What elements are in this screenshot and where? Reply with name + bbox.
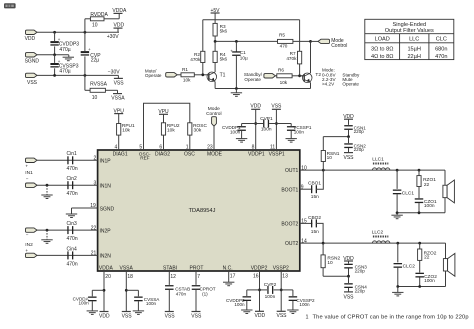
ground (filter ch1) [396,213,398,215]
wire IN1N [37,184,98,186]
svg-text:100n: 100n [299,302,310,307]
svg-text:OUT2: OUT2 [285,241,299,247]
wire SGND [37,54,69,56]
svg-text:Control: Control [206,111,221,117]
svg-text:470n: 470n [435,54,447,60]
resistor RPU1 10k [118,114,120,124]
svg-text:+: + [230,49,233,54]
svg-text:VDD: VDD [250,104,261,110]
svg-text:CLC2: CLC2 [403,264,416,270]
connector IN2 minus [26,228,38,232]
svg-text:10k: 10k [167,128,175,134]
svg-text:6: 6 [159,145,162,151]
connector VSS [26,73,38,77]
capacitor Cin1 470n [67,156,68,164]
svg-text:IN2N: IN2N [100,254,112,260]
svg-text:VDD: VDD [114,23,125,29]
svg-text:REF: REF [140,156,150,161]
connector SGND [26,53,38,57]
junction snubber1 [347,135,350,138]
capacitor CZO1 100n [418,187,420,199]
svg-text:IN1N: IN1N [100,183,112,189]
resistor R4 5k6 [214,41,216,51]
svg-text:100n: 100n [78,300,89,305]
svg-text:BOOT1: BOOT1 [281,187,298,193]
svg-text:VSS: VSS [27,80,38,86]
svg-text:VSSP2: VSSP2 [273,265,289,271]
resistor R3 5k6 [214,20,216,24]
loudspeaker ch1 [444,170,446,185]
svg-text:470n: 470n [67,166,78,172]
svg-text:LLC1: LLC1 [372,157,384,163]
svg-text:Output Filter Values: Output Filter Values [385,28,434,34]
supply VSS (pin12) [165,311,174,313]
svg-text:12: 12 [170,274,176,280]
svg-text:OSC: OSC [184,152,195,158]
capacitor Cin3 470n [67,226,68,234]
svg-text:+: + [25,248,28,253]
svg-text:17: 17 [230,273,236,279]
svg-text:STABI: STABI [163,265,177,271]
svg-text:SGND: SGND [25,59,40,65]
capacitor CPROT (1) [195,271,197,285]
wire OSC-REF loop [144,103,190,150]
svg-text:TDA8954J: TDA8954J [189,208,216,214]
resistor R6 10k [275,75,276,77]
svg-text:CBO1: CBO1 [308,180,321,186]
svg-text:100n: 100n [424,203,435,209]
wire to T2 collector [310,41,312,73]
ground (CVSSP2) [287,309,298,311]
wire VDDP2 pin16 [259,271,261,311]
capacitor CVSSA 100n [126,289,138,291]
svg-text:VSS: VSS [276,313,287,319]
svg-text:VSS: VSS [343,295,354,301]
ground (CVDDP2) [241,309,252,311]
svg-text:220p: 220p [354,129,365,134]
svg-text:11: 11 [270,145,275,151]
svg-text:IN2P: IN2P [100,228,112,234]
wire VSSP2 pin13 [280,271,282,311]
wire mode gnd rail [215,88,310,90]
svg-text:Operate: Operate [244,77,261,82]
svg-text:100n: 100n [261,127,272,133]
svg-text:VDD: VDD [99,314,110,320]
svg-text:VSS: VSS [343,155,354,161]
svg-text:10: 10 [92,23,98,29]
supply VDD (+30V) [117,28,119,32]
svg-text:LLC: LLC [409,37,419,43]
resistor R2 470k [202,20,204,52]
connector IN2 plus [26,253,38,257]
svg-text:18: 18 [127,274,133,280]
svg-text:IN1P: IN1P [100,159,112,165]
capacitor CSTAB 470n [168,271,170,285]
svg-text:470: 470 [280,44,288,49]
wire VSSA pin18 [125,271,127,312]
ground (CVSSA) [133,310,144,312]
supply VSS (snubber1) [344,152,353,154]
svg-text:OUT1: OUT1 [285,168,299,174]
svg-text:5k6: 5k6 [220,28,228,33]
svg-text:Cin3: Cin3 [67,221,78,227]
capacitor CZO2 100n [419,260,421,272]
supply VSS (snubber2) [344,291,353,293]
svg-text:8: 8 [252,145,255,151]
svg-text:100n: 100n [146,301,157,306]
junction [53,31,56,34]
capacitor CSN4 220p [348,276,350,283]
svg-text:−: − [26,233,29,238]
svg-text:10: 10 [327,260,333,266]
junction [53,74,56,77]
svg-text:470k: 470k [286,56,297,61]
svg-text:BOOT2: BOOT2 [281,221,298,227]
svg-text:3Ω to 8Ω: 3Ω to 8Ω [371,46,393,52]
svg-text:VSSA: VSSA [120,265,134,271]
svg-text:RVDDA: RVDDA [90,12,108,18]
capacitor CVP2 100n [260,289,268,291]
svg-text:CLC1: CLC1 [402,190,415,196]
svg-text:LOAD: LOAD [375,37,390,43]
ground (mode circuit) [235,89,237,93]
capacitor CVSSP2 100n [281,289,293,291]
svg-text:R1: R1 [182,67,188,72]
svg-text:7: 7 [197,274,200,280]
svg-text:VSS: VSS [165,314,176,320]
ground (SGND pin19) [71,208,73,214]
svg-text:13: 13 [282,273,288,279]
wire +5V rail [203,19,300,21]
wire OUT1 [300,169,445,171]
capacitor CSN2 220p [348,137,350,144]
svg-text:Operate: Operate [342,82,359,87]
supply VSS (pin13) [277,310,286,312]
resistor RVSSA 10 [84,75,86,90]
svg-text:100n: 100n [234,302,245,307]
svg-text:680n: 680n [435,46,447,52]
capacitor CVSSP3 470u [54,55,56,63]
wire IN2N [37,254,98,256]
resistor RZO2 22 [419,243,421,249]
svg-text:VSS: VSS [191,314,202,320]
svg-text:10k: 10k [280,80,288,85]
svg-text:30k: 30k [194,128,202,134]
capacitor CLC1 [396,170,398,189]
svg-text:470µ: 470µ [59,69,70,75]
capacitor VCSSP1 100n [276,123,291,125]
svg-text:+: + [25,164,28,169]
svg-text:DIAG1: DIAG1 [113,152,128,158]
supply VSS (pin18) [122,311,131,313]
ground (IN2, optional) [46,230,48,239]
svg-text:Cin1: Cin1 [67,151,78,157]
svg-text:IN1: IN1 [25,170,33,176]
resistor RPU2 10k [163,114,165,123]
resistor R5 470 [278,39,293,43]
capacitor CVDDP1 100n [242,123,256,125]
wire OUT2 [300,242,446,244]
svg-text:100n: 100n [424,278,435,284]
table Single-Ended Output Filter Values [365,19,454,59]
capacitor CBO1 15n [300,188,313,190]
op-amp U1 TDA8954J [98,150,300,271]
supply VSS (-30V) [117,75,119,78]
svg-text:(1): (1) [202,291,208,296]
svg-text:VSSA: VSSA [111,96,125,102]
svg-text:470n: 470n [67,236,78,242]
loudspeaker ch2 [445,243,447,259]
transistor T2 [302,73,312,83]
svg-text:T2: T2 [315,72,321,78]
wire VDDP1 [255,109,257,150]
supply VDDA [118,13,120,18]
capacitor Cin4 470n [67,251,68,259]
supply VDD (pin20) [100,311,109,313]
svg-text:−: − [26,177,29,182]
capacitor C1 10u [235,41,237,51]
svg-text:VDDP2: VDDP2 [251,265,268,271]
ground (N.C. pin17) [228,271,230,282]
ground (filter ch2) [397,287,399,293]
svg-text:220p: 220p [355,288,366,293]
svg-text:VSSP1: VSSP1 [269,152,285,158]
svg-text:23: 23 [207,145,213,151]
capacitor CVP1 100n [256,123,263,125]
svg-text:LLC2: LLC2 [372,230,384,236]
node mode-control [309,40,312,43]
svg-text:10: 10 [92,95,98,101]
svg-text:10k: 10k [122,128,130,134]
svg-text:20: 20 [105,274,111,280]
resistor RSN2 10 [322,243,324,255]
svg-text:470n: 470n [67,261,78,267]
supply VSSA [117,90,119,93]
svg-text:R6: R6 [278,68,284,73]
svg-text:VDD: VDD [25,36,36,42]
svg-text:100n: 100n [230,130,241,135]
svg-text:4Ω to 8Ω: 4Ω to 8Ω [371,54,393,60]
badge (corner logo) [4,3,16,8]
svg-text:4: 4 [115,145,118,151]
svg-text:15n: 15n [311,229,319,235]
wire VSS rail [37,74,118,76]
svg-text:MODE: MODE [207,152,223,158]
svg-text:N.C.: N.C. [223,265,233,271]
capacitor CVDDA 100n [92,289,104,291]
svg-text:RVSSA: RVSSA [90,81,108,87]
svg-text:+30V: +30V [107,34,119,40]
svg-text:1: 1 [186,145,189,151]
wire VDD rail [37,31,119,33]
svg-text:+: + [88,47,91,52]
svg-text:15µH: 15µH [407,46,421,52]
connector Mode Control [318,39,330,43]
capacitor CVP 22u [84,32,86,51]
svg-text:22: 22 [424,255,430,261]
svg-text:470µ: 470µ [59,47,70,53]
svg-text:Cin4: Cin4 [67,246,78,252]
svg-text:VDDP1: VDDP1 [248,152,265,158]
ground (CVDDA) [87,310,98,312]
svg-text:Cin2: Cin2 [67,176,78,182]
resistor RZO1 22 [418,170,420,176]
svg-text:CVP2: CVP2 [264,282,277,288]
connector IN1 plus [26,158,38,162]
svg-text:VSS: VSS [122,314,133,320]
svg-text:−30V: −30V [108,70,120,76]
svg-text:5: 5 [139,145,142,151]
svg-text:CVP1: CVP1 [260,116,273,122]
capacitor CSN1 220p [348,119,350,125]
wire gnd rail ch2 [398,286,446,288]
wire VDDA pin20 [103,271,105,312]
svg-text:100n: 100n [294,130,305,135]
svg-text:1: 1 [306,314,309,320]
ground (IN1, optional) [46,185,48,194]
svg-text:22: 22 [424,182,430,188]
capacitor Cin2 470n [67,181,68,189]
svg-text:10: 10 [327,155,333,161]
svg-text:CBO2: CBO2 [308,215,321,221]
svg-text:PROT: PROT [190,265,204,271]
svg-text:470k: 470k [190,57,201,62]
resistor RVDDA 10 [84,19,86,33]
wire VSSP1 [275,109,277,150]
svg-text:22µH: 22µH [407,54,421,60]
wire IN1P [37,159,98,161]
svg-text:VSS: VSS [114,81,125,87]
svg-text:VSS: VSS [271,104,282,110]
svg-text:The value of CPROT can be in t: The value of CPROT can be in the range f… [313,314,469,320]
wire gnd rail ch1 [397,212,445,214]
junction snubber2 [347,275,350,278]
connector IN1 minus [26,183,38,187]
svg-text:Operate: Operate [145,73,162,78]
svg-text:R5: R5 [279,32,285,37]
svg-text:VDD: VDD [255,313,266,319]
svg-text:16: 16 [253,273,259,279]
svg-text:CLC: CLC [436,37,447,43]
svg-text:470n: 470n [176,291,187,296]
svg-text:22µ: 22µ [91,57,100,63]
wire node A [215,40,277,42]
svg-text:10k: 10k [183,77,191,82]
supply VDD (pin16) [255,310,264,312]
svg-text:220p: 220p [354,147,365,152]
svg-text:10µ: 10µ [240,55,248,60]
svg-text:220p: 220p [355,269,366,274]
capacitor CSN3 220p [348,261,350,264]
resistor RSN1 10 [322,162,324,171]
resistor R7 470k [299,20,301,52]
svg-text:T1: T1 [220,72,226,78]
svg-text:˃4.2V: ˃4.2V [322,82,335,87]
svg-text:DIAG2: DIAG2 [155,152,170,158]
svg-text:VDDA: VDDA [99,265,114,271]
svg-text:SGND: SGND [100,206,115,212]
resistor ROSC 30k [188,123,192,135]
capacitor CVDDP3 470u [54,32,56,41]
transistor T1 [207,72,217,82]
svg-text:100n: 100n [265,294,276,300]
wire IN2P [37,229,98,231]
capacitor CLC2 [397,243,399,262]
svg-text:Control: Control [331,43,347,49]
supply VSS (pin7) [192,311,201,313]
svg-text:470n: 470n [67,191,78,197]
capacitor CBO2 15n [300,222,313,224]
svg-text:15n: 15n [311,194,319,200]
connector VDD [26,30,38,34]
svg-text:IN2: IN2 [25,242,33,248]
resistor R1 10k [177,74,181,76]
capacitor CVDDP2 100n [247,289,260,291]
svg-text:VDDA: VDDA [112,8,127,14]
svg-text:5k6: 5k6 [220,56,228,61]
wire SGND pin [72,207,98,209]
wire MODE pin [213,126,215,150]
ground (SGND) [68,55,70,57]
